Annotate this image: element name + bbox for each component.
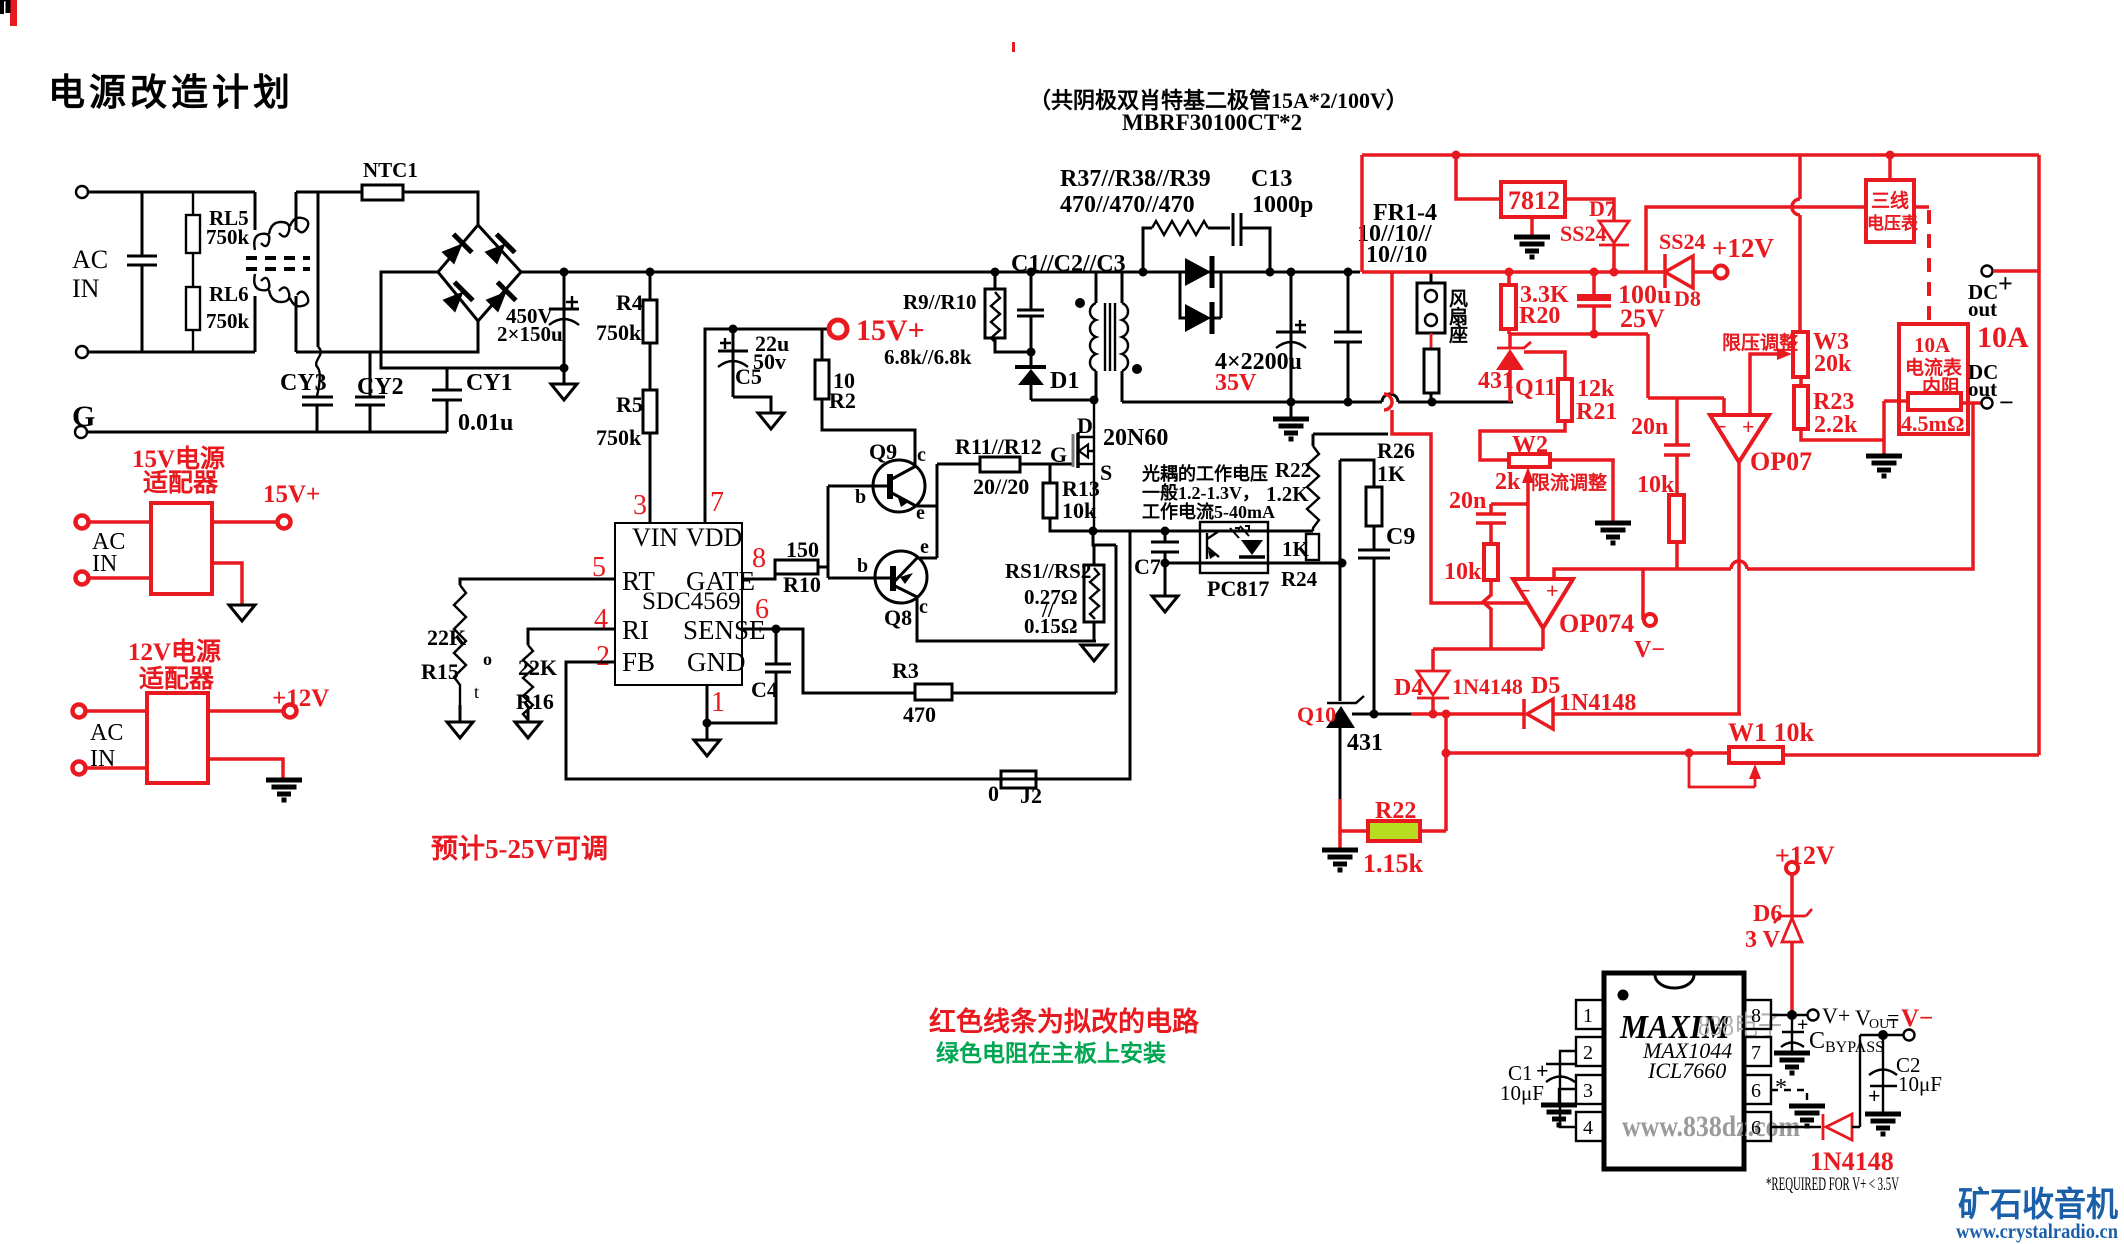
regulator 7812	[1501, 182, 1565, 217]
ground under 450V cap	[563, 368, 566, 384]
svg-text:适配器: 适配器	[139, 665, 215, 693]
svg-text:2: 2	[596, 641, 610, 672]
snubber R37//R38//R39	[1139, 268, 1148, 277]
svg-text:1: 1	[711, 687, 725, 718]
svg-text:t: t	[474, 682, 479, 702]
svg-text:6: 6	[755, 594, 769, 625]
wire G	[87, 431, 447, 434]
svg-text:Q11: Q11	[1515, 375, 1556, 401]
svg-text:R15: R15	[421, 659, 459, 684]
pin box 1	[1576, 1000, 1604, 1029]
diode D7 SS24	[1565, 199, 1614, 221]
adapter 12V gnd	[208, 759, 283, 778]
resistor R16 22K	[523, 645, 533, 720]
svg-text:AC: AC	[90, 720, 123, 746]
pin8 V+	[1771, 1014, 1807, 1016]
svg-text:GND: GND	[687, 647, 746, 677]
svg-text:1000p: 1000p	[1252, 192, 1313, 218]
svg-text:750k: 750k	[206, 309, 250, 333]
transformer core	[1105, 303, 1115, 371]
capacitor C5 22u 50v	[718, 329, 748, 397]
wire W2 right to gnd	[1550, 460, 1613, 521]
node source	[1089, 527, 1098, 536]
wire SENSE pin	[742, 629, 915, 693]
svg-text:+: +	[1742, 414, 1755, 439]
optocoupler PC817	[1200, 522, 1268, 573]
svg-text:光耦的工作电压: 光耦的工作电压	[1141, 463, 1268, 484]
resistor R2 10	[821, 329, 824, 360]
AC input terminal top	[76, 186, 88, 198]
op-amp U3 OP074	[1513, 579, 1573, 628]
svg-text:10//10: 10//10	[1366, 242, 1427, 268]
svg-text:Q9: Q9	[869, 439, 897, 464]
svg-text:W2: W2	[1512, 432, 1548, 458]
svg-text:750k: 750k	[596, 425, 642, 450]
svg-text:C7: C7	[1134, 554, 1161, 579]
pin box 5	[1744, 1112, 1771, 1141]
stray red mark top-left	[10, 0, 17, 26]
wire bridge minus loop	[381, 272, 564, 368]
svg-text:SS24: SS24	[1659, 229, 1705, 254]
resistor R22 1.2K zigzag	[1312, 434, 1315, 446]
svg-text:2.2k: 2.2k	[1814, 412, 1858, 438]
DC out plus terminal	[1982, 266, 1993, 277]
voltmeter box 三线电压表	[1866, 180, 1914, 242]
adapter 15V output	[212, 520, 276, 524]
svg-text:b: b	[855, 486, 866, 508]
svg-text:适配器: 适配器	[143, 469, 219, 497]
wire source node	[1093, 531, 1116, 565]
svg-text:R2: R2	[829, 388, 856, 413]
svg-text:+: +	[1797, 1014, 1808, 1036]
svg-text:6: 6	[1751, 1080, 1761, 1102]
svg-text:C4: C4	[751, 677, 778, 702]
svg-text:3: 3	[633, 490, 647, 521]
svg-text:7812: 7812	[1508, 186, 1560, 215]
svg-text:7: 7	[710, 487, 724, 518]
svg-text:CY3: CY3	[280, 370, 327, 396]
wire AC top	[88, 191, 255, 194]
jumper J2 0	[1001, 771, 1036, 788]
svg-text:V+: V+	[1822, 1003, 1850, 1028]
svg-text:431: 431	[1478, 368, 1514, 394]
svg-text:VDD: VDD	[686, 523, 742, 552]
svg-text:R24: R24	[1281, 567, 1318, 591]
svg-text:预计5-25V可调: 预计5-25V可调	[431, 834, 608, 864]
transistor Q9	[873, 460, 925, 512]
node cap gnd	[560, 364, 569, 373]
capacitor CBYPASS	[1782, 1015, 1804, 1052]
red line 1392 down	[1392, 272, 1528, 603]
svg-text:25V: 25V	[1620, 304, 1665, 333]
svg-text:3: 3	[1583, 1080, 1593, 1102]
capacitor C output2	[1344, 268, 1353, 277]
resistor R24 1K vertical	[1306, 534, 1319, 560]
wire AC bottom to bridge	[296, 321, 478, 352]
svg-text:750k: 750k	[206, 225, 250, 249]
capacitor X2 across AC	[127, 192, 157, 352]
node bridge plus cap	[560, 268, 569, 277]
svg-text:7: 7	[1751, 1042, 1761, 1064]
OP07 output down	[1737, 462, 1741, 714]
capacitor 450V 2x150u	[549, 272, 579, 368]
svg-text:35V: 35V	[1215, 370, 1257, 396]
svg-text:三线: 三线	[1871, 189, 1909, 212]
IC U4 MAX1044	[1604, 973, 1744, 1169]
svg-text:out: out	[1968, 297, 1997, 321]
svg-text:15V+: 15V+	[263, 481, 320, 508]
OP074 output	[1433, 628, 1543, 649]
W3 wiper to OP07+	[1750, 354, 1780, 415]
DC out minus terminal	[1961, 401, 1981, 405]
svg-text:8: 8	[1751, 1005, 1761, 1027]
svg-text:*REQUIRED FOR V+ < 3.5V: *REQUIRED FOR V+ < 3.5V	[1766, 1174, 1899, 1195]
svg-text:10A: 10A	[1914, 333, 1951, 357]
svg-text:1N4148: 1N4148	[1810, 1147, 1894, 1176]
svg-text:10k: 10k	[1062, 498, 1097, 523]
adapter box 12V	[147, 693, 208, 783]
shunt regulator Q10 431	[1339, 460, 1342, 701]
svg-text:4: 4	[1583, 1117, 1593, 1139]
svg-text:431: 431	[1347, 730, 1383, 756]
thermistor R15 22K	[454, 585, 466, 711]
wire R22 top to red node	[1313, 433, 1388, 436]
resistor R4	[646, 268, 655, 277]
svg-text:FB: FB	[622, 647, 655, 677]
resistor 10k left	[1484, 544, 1498, 580]
svg-text:150: 150	[786, 537, 819, 562]
svg-text:0.01u: 0.01u	[458, 410, 513, 436]
svg-text:MBRF30100CT*2: MBRF30100CT*2	[1122, 110, 1302, 135]
adapter 15V terminals	[76, 516, 89, 529]
resistor R13 10k	[1049, 464, 1052, 483]
resistor R3 470	[915, 684, 952, 700]
svg-text:10k: 10k	[1444, 559, 1482, 585]
svg-text:Q10: Q10	[1297, 702, 1336, 727]
svg-text:20n: 20n	[1631, 414, 1668, 440]
black rail secondary	[1122, 401, 1513, 404]
svg-text:绿色电阻在主板上安装: 绿色电阻在主板上安装	[936, 1040, 1166, 1066]
svg-text:c: c	[919, 596, 928, 618]
svg-text:SDC4569: SDC4569	[642, 588, 741, 615]
svg-text:o: o	[483, 649, 492, 669]
svg-text:c: c	[917, 444, 926, 466]
svg-text:红色线条为拟改的电路: 红色线条为拟改的电路	[929, 1006, 1200, 1037]
svg-text:RS1//RS2: RS1//RS2	[1005, 559, 1091, 583]
red +12V rail	[1362, 270, 1665, 274]
ground RS	[1081, 645, 1107, 661]
G terminal	[75, 426, 87, 438]
svg-text:0.15Ω: 0.15Ω	[1024, 614, 1078, 638]
wire NTC1 to bridge	[403, 192, 478, 225]
resistor RL6	[186, 287, 200, 330]
svg-text:D1: D1	[1050, 368, 1079, 394]
svg-text:IN: IN	[90, 746, 115, 772]
svg-text:10A: 10A	[1977, 321, 2029, 354]
svg-text:+12V: +12V	[1712, 233, 1774, 263]
svg-text:RL6: RL6	[209, 282, 249, 306]
wire VDD to 15V+	[705, 329, 830, 523]
svg-text:BYPASS: BYPASS	[1825, 1039, 1884, 1056]
svg-text:OP07: OP07	[1750, 447, 1812, 476]
ammeter box 10A 电流表 内阻	[1899, 324, 1968, 434]
svg-text:CY2: CY2	[357, 374, 404, 400]
ground 7812	[1530, 217, 1534, 236]
svg-text:20k: 20k	[1814, 351, 1852, 377]
svg-text:R22: R22	[1275, 458, 1311, 482]
svg-text:R16: R16	[516, 689, 554, 714]
svg-text:工作电流5-40mA: 工作电流5-40mA	[1142, 501, 1275, 522]
svg-text:out: out	[1968, 377, 1997, 401]
resistor R9//R10 6.8k//6.8k	[991, 268, 1000, 277]
wire R21 to W2	[1480, 421, 1565, 460]
capacitor 100u 25V	[1590, 268, 1599, 277]
svg-text:750k: 750k	[596, 320, 642, 345]
pin box 4	[1576, 1112, 1604, 1141]
svg-text:AC: AC	[72, 245, 108, 274]
svg-text:J2: J2	[1020, 783, 1042, 808]
svg-text:6: 6	[1751, 1117, 1761, 1139]
svg-text:R22: R22	[1375, 798, 1416, 824]
pin box 7	[1744, 1037, 1771, 1066]
svg-text:+: +	[1536, 1058, 1549, 1083]
svg-text:PC817: PC817	[1207, 576, 1269, 601]
transformer secondary	[1121, 272, 1124, 303]
wire R10 to bases	[818, 486, 893, 578]
ground rail earth	[1290, 402, 1293, 417]
capacitor C4	[707, 629, 791, 723]
svg-text:一般1.2-1.3V，: 一般1.2-1.3V，	[1142, 482, 1260, 503]
IC U1 SDC4569	[615, 523, 742, 685]
svg-text:*: *	[1775, 1075, 1787, 1101]
svg-text:R20: R20	[1519, 303, 1560, 329]
svg-text:R5: R5	[616, 392, 643, 417]
capacitor C output1 4x2200u	[1287, 268, 1296, 277]
wire AC bottom	[88, 351, 255, 354]
svg-text:1N4148: 1N4148	[1452, 674, 1523, 699]
capacitor C1//C2//C3	[1027, 268, 1036, 277]
pin box 6	[1744, 1075, 1771, 1104]
wire RI pin	[528, 629, 615, 645]
wire CY3 to top AC line	[317, 192, 320, 347]
wire Q9 emitter junction	[916, 506, 937, 558]
EMI choke windings	[255, 192, 296, 352]
svg-text:电源改造计划: 电源改造计划	[48, 72, 294, 114]
wire bridge plus to bus	[521, 271, 1360, 274]
diode 1N4148 bottom	[1823, 1114, 1852, 1140]
pin box 3	[1576, 1075, 1604, 1104]
svg-text:22K: 22K	[518, 655, 557, 680]
resistor RL5	[186, 215, 200, 253]
transistor M1 20N60 MOSFET	[1072, 434, 1075, 467]
svg-text:−: −	[1518, 578, 1531, 603]
svg-text:+: +	[1868, 1083, 1881, 1108]
svg-text:D6: D6	[1753, 901, 1782, 927]
svg-text:限压调整: 限压调整	[1722, 331, 1798, 354]
svg-text:1: 1	[1583, 1005, 1593, 1027]
diode D4 1N4148	[1431, 649, 1435, 671]
svg-text:1.15k: 1.15k	[1363, 849, 1424, 878]
svg-text:IN: IN	[92, 551, 117, 577]
resistor R26 1K	[1340, 460, 1374, 487]
shunt 4.5mΩ	[1908, 393, 1961, 410]
wire D1 to drain node	[1031, 399, 1094, 402]
wire FB loop through J2	[566, 531, 1130, 779]
svg-text:C: C	[1809, 1028, 1825, 1054]
svg-text:IN: IN	[72, 274, 100, 303]
zener D6 3V	[1790, 874, 1794, 918]
svg-text:470: 470	[903, 702, 936, 727]
svg-text:VIN: VIN	[632, 523, 678, 552]
resistor R23 2.2k	[1799, 377, 1803, 386]
wire Q8 collector	[917, 597, 1096, 641]
svg-text:R37//R38//R39: R37//R38//R39	[1060, 166, 1211, 192]
svg-text:Q8: Q8	[884, 605, 912, 630]
svg-text:20n: 20n	[1449, 488, 1486, 514]
line 714 red	[1411, 712, 1741, 716]
diode D8 SS24	[1665, 254, 1714, 288]
line 714 black part	[1352, 713, 1411, 716]
adapter 12V terminals	[73, 705, 86, 718]
svg-text:22K: 22K	[427, 625, 466, 650]
svg-text:15V+: 15V+	[856, 314, 925, 347]
capacitor 20n right	[1648, 398, 1724, 495]
sense line 569	[1554, 403, 1973, 579]
capacitor C2 10uF	[1882, 1035, 1884, 1112]
AC input terminal bottom	[76, 346, 88, 358]
svg-text:C13: C13	[1251, 166, 1292, 192]
pin3 ground	[1559, 1089, 1576, 1104]
svg-text:D8: D8	[1674, 286, 1701, 311]
svg-text:www.crystalradio.cn: www.crystalradio.cn	[1956, 1219, 2118, 1243]
svg-text:10k: 10k	[1637, 472, 1675, 498]
svg-text:8: 8	[752, 543, 766, 574]
svg-text:b: b	[857, 555, 868, 577]
svg-text:D7: D7	[1589, 196, 1616, 221]
resistor R22 green 1.15k	[1340, 799, 1368, 831]
V- terminal	[1641, 569, 1645, 620]
bridge rectifier	[438, 225, 521, 321]
svg-text:W1 10k: W1 10k	[1728, 718, 1815, 747]
resistor 10k right	[1669, 495, 1684, 542]
+12V terminal bottom section	[1786, 862, 1798, 874]
svg-text:RI: RI	[622, 615, 649, 645]
diode D output bottom MBRF	[1180, 272, 1221, 318]
pin box 8	[1744, 1000, 1771, 1029]
voltmeter dashed link	[1914, 205, 1929, 209]
resistor R5	[649, 343, 652, 390]
svg-text:D5: D5	[1531, 673, 1560, 699]
diode D5 1N4148	[1524, 699, 1553, 729]
svg-text:+12V: +12V	[272, 685, 329, 712]
ground under green R22	[1338, 831, 1342, 848]
adapter 15V gnd	[212, 563, 242, 605]
wire Q11 ref to R21	[1524, 352, 1565, 379]
diode D1	[1030, 352, 1033, 367]
svg-text:2k: 2k	[1495, 469, 1521, 495]
svg-text:R26: R26	[1377, 438, 1415, 463]
wire RT pin	[460, 579, 615, 585]
phase dot secondary	[1132, 364, 1142, 374]
resistor R11//R12 20//20	[980, 457, 1020, 472]
capacitor CY2	[355, 352, 385, 432]
svg-text:R3: R3	[892, 658, 919, 683]
svg-text:15V电源: 15V电源	[132, 445, 225, 473]
pin box 2	[1576, 1037, 1604, 1066]
svg-text:1K: 1K	[1377, 461, 1405, 486]
svg-text:限流调整: 限流调整	[1531, 471, 1607, 494]
svg-text:NTC1: NTC1	[363, 158, 418, 182]
svg-text:C9: C9	[1386, 524, 1415, 550]
svg-text:R10: R10	[783, 572, 821, 597]
svg-text:V−: V−	[1901, 1005, 1933, 1032]
svg-text:10μF: 10μF	[1898, 1072, 1942, 1096]
wire source line to PC817	[1093, 530, 1313, 533]
svg-text:座: 座	[1449, 323, 1468, 346]
svg-text:+: +	[1998, 269, 2013, 298]
capacitor C7	[1151, 531, 1179, 596]
svg-text:1N4148: 1N4148	[1559, 690, 1636, 716]
svg-text:20N60: 20N60	[1103, 425, 1168, 451]
svg-text:0: 0	[988, 781, 999, 806]
red node line 334	[1509, 334, 1648, 398]
svg-text:S: S	[1100, 460, 1112, 485]
wire GATE to R10	[742, 567, 775, 579]
svg-text:ICL7660: ICL7660	[1647, 1058, 1726, 1083]
svg-text:−: −	[1714, 414, 1727, 439]
capacitor C9	[1358, 526, 1390, 714]
svg-text:3 V: 3 V	[1745, 927, 1781, 953]
pin5 wire	[1771, 1126, 1821, 1128]
wire R11 to gate	[1020, 463, 1073, 466]
wire emitters to gate node	[937, 464, 980, 558]
fan socket	[1430, 271, 1433, 283]
svg-text:R21: R21	[1576, 399, 1617, 425]
wire GND pin	[706, 685, 709, 740]
capacitor CY1	[432, 368, 462, 432]
svg-text:R9//R10: R9//R10	[903, 290, 977, 314]
svg-text:=: =	[1887, 1005, 1899, 1030]
svg-text:2×150u: 2×150u	[497, 322, 563, 346]
wire opto emitter line	[1165, 562, 1342, 565]
stray red tick near top center	[1012, 42, 1015, 52]
svg-text:C5: C5	[735, 364, 762, 389]
voltmeter feed line	[1646, 207, 1866, 272]
adapter 12V output	[208, 709, 283, 713]
svg-text:D: D	[1077, 413, 1093, 438]
adapter box 15V	[151, 503, 212, 594]
svg-text:+12V: +12V	[1775, 841, 1835, 870]
pot W2 2k	[1509, 454, 1550, 467]
VOUT = V-	[1860, 1034, 1903, 1036]
W3 pot 20k	[1792, 155, 1800, 332]
resistor R10 150	[775, 560, 818, 574]
capacitor C1 10uF	[1546, 1051, 1576, 1127]
capacitor C13 1000p	[1233, 213, 1270, 272]
svg-text:e: e	[920, 536, 929, 558]
svg-text:电流表: 电流表	[1905, 356, 1963, 379]
op-amp U2 OP07	[1710, 415, 1769, 462]
svg-text:CY1: CY1	[466, 370, 513, 396]
svg-text:SS24: SS24	[1560, 221, 1606, 246]
svg-text:6.8k//6.8k: 6.8k//6.8k	[884, 345, 972, 369]
red top bus	[1362, 155, 2039, 272]
resistor R21 12k	[1558, 379, 1572, 421]
svg-text:V−: V−	[1634, 637, 1665, 663]
resistor RS1//RS2	[1084, 565, 1104, 622]
capacitor 20n left	[1476, 504, 1528, 544]
transformer T1 primary	[1095, 272, 1098, 303]
